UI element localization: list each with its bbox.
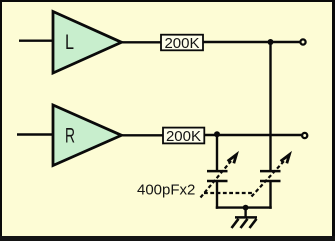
- label 400pFx2: [137, 181, 195, 198]
- wire L input: [19, 40, 53, 42]
- terminal L output: [300, 39, 305, 44]
- wire VC2 bottom: [269, 181, 271, 209]
- terminal R output: [302, 133, 307, 138]
- op-amp R: [53, 105, 122, 166]
- ground: [232, 217, 258, 228]
- wire R to terminal: [204, 134, 301, 136]
- variable capacitor VC1 arrow: [201, 155, 237, 198]
- svg-text:L: L: [65, 31, 74, 54]
- wire L to terminal: [203, 41, 300, 43]
- wire R input: [17, 133, 53, 135]
- wire VC1 bottom: [216, 181, 218, 209]
- resistor R-L 200K: [161, 35, 203, 52]
- node L junction: [268, 39, 274, 45]
- node R junction: [214, 131, 220, 137]
- wire ground stub: [244, 208, 246, 218]
- svg-text:R: R: [65, 124, 75, 147]
- variable capacitor VC2 arrow: [252, 155, 290, 197]
- svg-text:400pFx2: 400pFx2: [137, 181, 195, 198]
- op-amp L: [53, 12, 122, 74]
- node ground junction: [243, 205, 249, 211]
- wire L output: [122, 41, 162, 43]
- variable capacitor VC2 plates: [260, 171, 281, 181]
- wire vertical R-node to VC1: [216, 135, 218, 171]
- variable capacitor VC1 plates: [207, 171, 228, 181]
- svg-text:200K: 200K: [166, 128, 201, 145]
- wire bottom bus: [216, 206, 272, 208]
- resistor R-R 200K: [163, 128, 204, 145]
- wire R output: [122, 134, 164, 136]
- gang link dashed: [204, 192, 254, 194]
- svg-text:200K: 200K: [164, 35, 199, 52]
- wire vertical L-node to VC2: [269, 42, 271, 171]
